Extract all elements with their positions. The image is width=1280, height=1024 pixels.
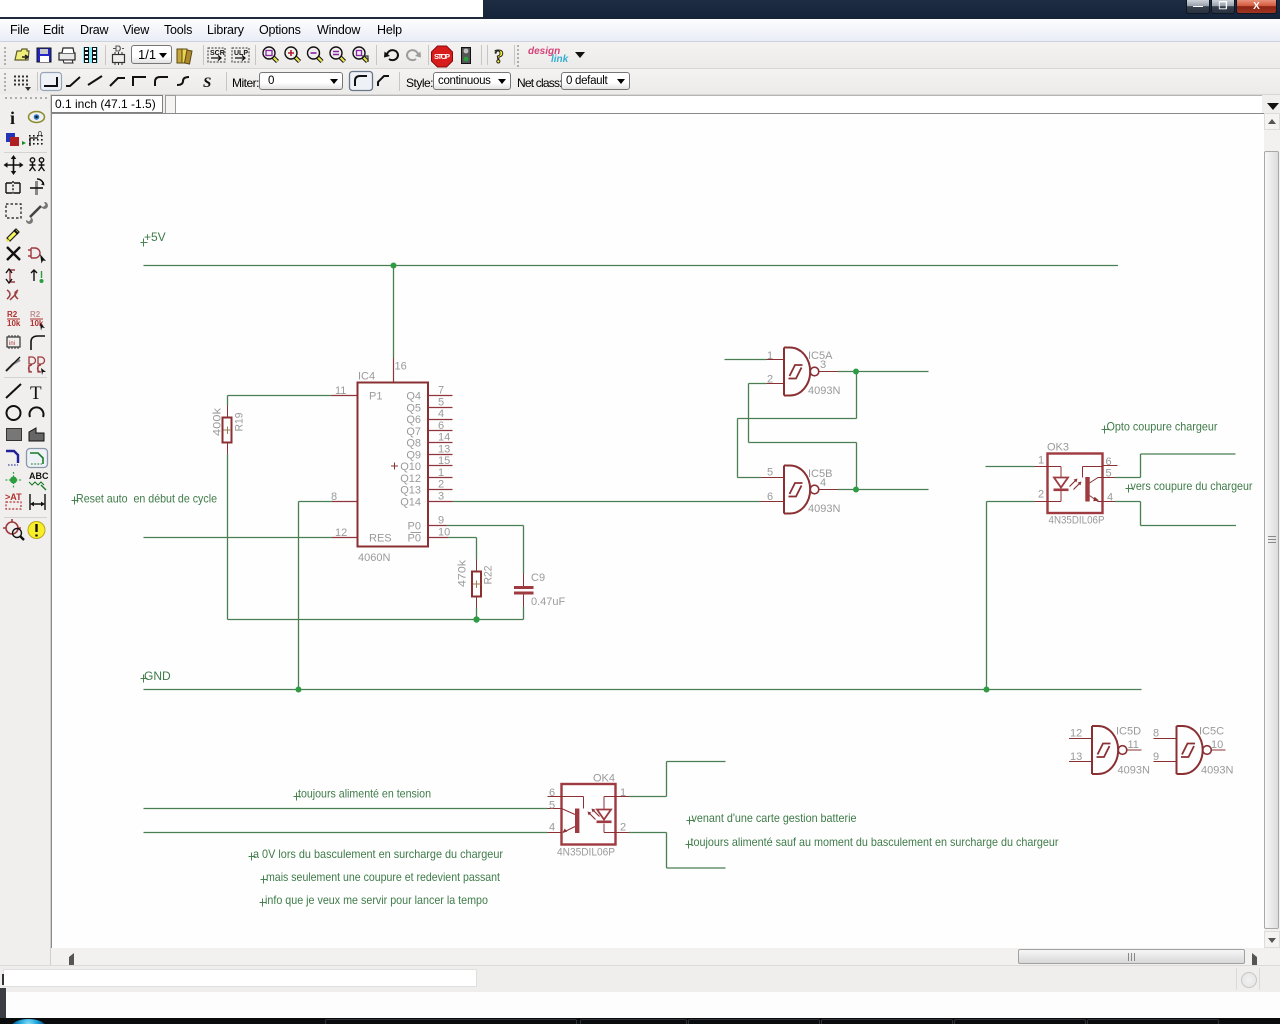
svg-text:P0: P0 bbox=[408, 533, 421, 545]
svg-text:4: 4 bbox=[549, 822, 555, 834]
svg-text:1: 1 bbox=[1038, 455, 1044, 467]
svg-text:venant d'une carte gestion bat: venant d'une carte gestion batterie bbox=[692, 811, 857, 825]
svg-text:400k: 400k bbox=[212, 407, 224, 436]
svg-text:10: 10 bbox=[438, 527, 450, 539]
svg-text:vers coupure du chargeur: vers coupure du chargeur bbox=[1131, 479, 1253, 493]
svg-text:Q12: Q12 bbox=[400, 473, 421, 485]
svg-text:15: 15 bbox=[438, 455, 450, 467]
svg-text:1: 1 bbox=[767, 350, 773, 362]
svg-text:2: 2 bbox=[1038, 489, 1044, 501]
svg-text:P0: P0 bbox=[408, 521, 421, 533]
svg-text:1: 1 bbox=[438, 467, 444, 479]
svg-text:11: 11 bbox=[1128, 739, 1139, 751]
svg-text:+5V: +5V bbox=[144, 230, 166, 244]
svg-text:7: 7 bbox=[438, 385, 444, 397]
svg-text:3: 3 bbox=[438, 491, 444, 503]
svg-text:C9: C9 bbox=[531, 572, 545, 584]
svg-text:Reset auto en début de cycle: Reset auto en début de cycle bbox=[76, 492, 217, 506]
svg-text:13: 13 bbox=[1070, 751, 1082, 763]
svg-text:4: 4 bbox=[438, 408, 444, 420]
svg-text:12: 12 bbox=[1070, 728, 1082, 740]
svg-text:0.47uF: 0.47uF bbox=[531, 596, 566, 608]
svg-text:10: 10 bbox=[1211, 739, 1223, 751]
svg-text:OK4: OK4 bbox=[593, 773, 615, 785]
svg-text:5: 5 bbox=[438, 397, 444, 409]
svg-text:5: 5 bbox=[767, 467, 773, 479]
svg-text:Opto coupure chargeur: Opto coupure chargeur bbox=[1107, 420, 1218, 434]
svg-text:6: 6 bbox=[438, 420, 444, 432]
svg-text:Q10: Q10 bbox=[400, 461, 421, 473]
svg-text:5: 5 bbox=[1106, 468, 1112, 480]
svg-text:9: 9 bbox=[1153, 751, 1159, 763]
svg-text:2: 2 bbox=[620, 822, 626, 834]
svg-text:14: 14 bbox=[438, 432, 450, 444]
svg-text:9: 9 bbox=[438, 515, 444, 527]
svg-text:IC4: IC4 bbox=[358, 371, 375, 383]
svg-text:Q14: Q14 bbox=[400, 497, 421, 509]
svg-text:toujours alimenté sauf au mome: toujours alimenté sauf au moment du basc… bbox=[691, 835, 1059, 849]
svg-text:RES: RES bbox=[369, 533, 392, 545]
svg-text:Q6: Q6 bbox=[406, 414, 421, 426]
svg-text:12: 12 bbox=[335, 527, 347, 539]
svg-text:8: 8 bbox=[331, 491, 337, 503]
svg-text:470k: 470k bbox=[457, 559, 469, 587]
svg-text:Q7: Q7 bbox=[406, 426, 421, 438]
svg-text:13: 13 bbox=[438, 444, 450, 456]
svg-text:16: 16 bbox=[395, 361, 407, 373]
svg-text:IC5C: IC5C bbox=[1199, 726, 1224, 738]
svg-text:2: 2 bbox=[438, 479, 444, 491]
svg-text:Q4: Q4 bbox=[406, 391, 421, 403]
svg-text:4N35DIL06P: 4N35DIL06P bbox=[1049, 515, 1105, 527]
svg-text:toujours alimenté en tension: toujours alimenté en tension bbox=[298, 787, 431, 801]
svg-text:IC5D: IC5D bbox=[1116, 726, 1141, 738]
svg-text:4: 4 bbox=[820, 477, 826, 489]
svg-text:6: 6 bbox=[1106, 456, 1112, 468]
svg-text:R22: R22 bbox=[483, 566, 495, 585]
svg-text:4093N: 4093N bbox=[808, 385, 840, 397]
svg-text:11: 11 bbox=[335, 385, 346, 397]
svg-text:GND: GND bbox=[144, 669, 171, 683]
svg-text:2: 2 bbox=[767, 374, 773, 386]
svg-text:6: 6 bbox=[549, 787, 555, 799]
svg-text:6: 6 bbox=[767, 491, 773, 503]
svg-text:mais seulement une coupure et: mais seulement une coupure et redevient … bbox=[266, 870, 501, 884]
svg-text:4093N: 4093N bbox=[808, 503, 840, 515]
svg-text:4: 4 bbox=[1107, 492, 1113, 504]
svg-text:Q8: Q8 bbox=[406, 438, 421, 450]
svg-text:info que je veux me servir pou: info que je veux me servir pour lancer l… bbox=[265, 893, 488, 907]
svg-text:R19: R19 bbox=[234, 413, 246, 432]
svg-text:1: 1 bbox=[620, 787, 626, 799]
svg-text:4N35DIL06P: 4N35DIL06P bbox=[557, 847, 615, 859]
svg-text:a 0V lors du basculement en su: a 0V lors du basculement en surcharge du… bbox=[253, 847, 503, 861]
svg-text:Q5: Q5 bbox=[406, 403, 421, 415]
svg-text:4060N: 4060N bbox=[358, 552, 390, 564]
svg-text:Q9: Q9 bbox=[406, 450, 421, 462]
svg-text:P1: P1 bbox=[369, 391, 382, 403]
svg-text:OK3: OK3 bbox=[1047, 442, 1069, 454]
svg-text:5: 5 bbox=[549, 800, 555, 812]
svg-text:8: 8 bbox=[1153, 728, 1159, 740]
svg-text:4093N: 4093N bbox=[1118, 765, 1150, 777]
svg-text:3: 3 bbox=[820, 359, 826, 371]
svg-text:4093N: 4093N bbox=[1201, 765, 1233, 777]
svg-text:Q13: Q13 bbox=[400, 485, 421, 497]
